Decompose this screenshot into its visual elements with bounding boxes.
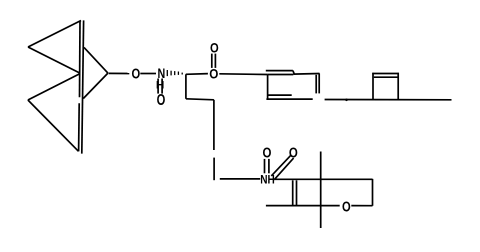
- wire chain horizontal: [186, 99, 214, 100]
- wire fluorene central vertical right: [82, 20, 84, 153]
- wire benzyl ring top edge right: [293, 73, 319, 76]
- wire bond ester O to ring: [219, 73, 267, 76]
- wire fluorene five-ring lower edge: [83, 73, 108, 98]
- wire bond C9 to O: [109, 72, 130, 74]
- wire chain to NH: [220, 178, 260, 180]
- svg-text:NH: NH: [260, 174, 275, 187]
- wire long chain line: [325, 99, 452, 101]
- wire benzyl ring aromatic inner bottom line: [268, 94, 292, 96]
- wire ester C=O double bond right line: [214, 54, 216, 68]
- wire S=O right double bond line a: [271, 155, 291, 176]
- wire second ring right edge: [397, 73, 399, 100]
- atom label NH sulfonamide: [260, 174, 275, 187]
- atom label N carbamate nitrogen: [158, 66, 166, 82]
- wire benzyl ring top edge left: [267, 74, 293, 76]
- svg-text:O: O: [157, 91, 166, 108]
- atom label O sulfonyl right oxygen: [289, 144, 298, 161]
- wire benzyl ring aromatic inner top line: [266, 70, 293, 72]
- wire ester C=O double bond left line: [211, 54, 213, 68]
- svg-text:O: O: [342, 198, 351, 215]
- atom label H on nitrogen: [156, 80, 164, 92]
- wire N=O double bond right line: [161, 79, 163, 94]
- wire fluorene central vertical left segment 2: [78, 103, 81, 151]
- wire S=O left double bond line b: [268, 159, 270, 173]
- wire fluorene lower-ring top edge: [28, 74, 80, 101]
- wire benzyl ring right edge inner: [315, 75, 317, 94]
- wire second ring aromatic inner line: [374, 76, 398, 78]
- wire pbf ring bottom edge right of O: [351, 205, 372, 207]
- wire S=O left double bond line a: [264, 159, 266, 173]
- wire fluorene upper-ring bottom edge: [28, 47, 80, 73]
- wire pbf ring bottom edge with methyl stub: [266, 205, 340, 207]
- node vertex dot on chain: [345, 99, 348, 102]
- wire S=O right double bond line b: [274, 158, 294, 180]
- wire fluorene central vertical left segment 1: [79, 21, 82, 98]
- wire chain vertical segment 1: [213, 100, 215, 150]
- svg-text:H: H: [156, 80, 164, 92]
- wire fluorene five-ring upper edge: [84, 47, 108, 73]
- svg-text:O: O: [289, 144, 298, 161]
- wire fluorene lower-ring bottom edge: [28, 100, 79, 151]
- wire pbf gem-dimethyl vertical: [320, 152, 322, 229]
- wire second ring top edge: [372, 73, 399, 75]
- atom label O fmoc ester oxygen: [131, 65, 140, 82]
- wire benzyl ring inner top line hook: [293, 71, 294, 74]
- wire fluorene upper-ring top edge: [28, 21, 81, 48]
- wire pbf ring double bond right line: [296, 180, 298, 205]
- svg-text:O: O: [210, 39, 219, 56]
- wire stereocenter down: [185, 74, 187, 99]
- svg-text:O: O: [209, 65, 218, 81]
- wire chain vertical segment 2: [213, 158, 215, 181]
- wire benzyl ring right edge outer: [318, 73, 320, 93]
- wire benzyl ring left edge: [267, 75, 269, 100]
- wire pbf ring double bond left line: [292, 180, 294, 205]
- atom label O carbamate carbonyl oxygen: [157, 91, 166, 108]
- svg-text:O: O: [131, 65, 140, 82]
- wire bond O to N: [140, 73, 156, 75]
- hashed wedge bond N to stereocenter: [167, 70, 182, 76]
- atom label O ester carbonyl top oxygen: [210, 39, 219, 56]
- atom label O ester oxygen: [209, 65, 218, 81]
- wire benzyl ring bottom edge: [266, 98, 312, 100]
- wire second ring left edge: [372, 73, 374, 100]
- atom label O furan oxygen: [342, 198, 351, 215]
- svg-text:O: O: [262, 144, 271, 161]
- wire pbf ring right edge: [372, 179, 374, 206]
- wire N=O double bond left line: [157, 79, 159, 94]
- wire bond stereocenter to ester O: [186, 73, 208, 76]
- atom label O sulfonyl left oxygen: [262, 144, 271, 161]
- wire bond NH to pbf ring top edge: [275, 178, 373, 180]
